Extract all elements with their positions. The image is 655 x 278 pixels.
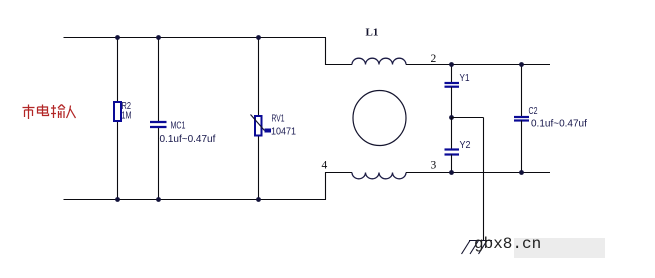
wire ground column [483,118,485,241]
svg-text:4: 4 [322,160,328,172]
svg-text:0.1uf~0.47uf: 0.1uf~0.47uf [160,134,216,145]
svg-text:3: 3 [431,160,437,172]
node dot top MC1 [156,35,161,40]
svg-text:MC1: MC1 [171,120,186,132]
capacitor Y2 [445,150,460,155]
node dot bottom R2 [115,197,120,202]
入 [67,106,76,119]
ground symbol [462,241,493,255]
node dot top R2 [115,35,120,40]
svg-text:0.1uf~0.47uf: 0.1uf~0.47uf [531,119,587,130]
node dot bottom RV1 [256,197,261,202]
wire L1 top winding to right end [406,64,550,66]
node dot C2 top [519,62,524,67]
varistor RV1 diagonal [251,115,265,131]
wire top line L phase [64,37,327,39]
svg-text:L1: L1 [366,27,379,39]
capacitor Y1 [445,83,460,87]
输 [51,105,65,119]
load circle [353,91,406,146]
svg-text:RV1: RV1 [272,113,285,125]
watermark gray box [514,238,605,258]
svg-text:1M: 1M [122,110,132,122]
capacitor C2 [514,117,529,121]
node dot bottom MC1 [156,197,161,202]
varistor RV1 [255,116,262,136]
svg-text:Y2: Y2 [460,139,471,151]
resistor R2 [114,102,121,121]
varistor RV1 diagonal foot [265,129,272,133]
电 [38,105,49,116]
svg-text:10471: 10471 [271,126,296,138]
node dot C2 bottom [519,170,524,175]
inductor L1 bottom winding [352,173,406,179]
wire C2 top segment [521,65,523,118]
label input text 市电输入 (hand drawn strokes) [23,105,76,120]
wire step up from bottom line to L1 bottom winding [326,173,353,200]
svg-text:Y1: Y1 [460,72,470,84]
svg-text:gbx8.cn: gbx8.cn [474,235,541,253]
node dot mid Y junction [449,115,454,120]
市 [23,105,35,120]
node dot node 3 junction [449,170,454,175]
node dot top RV1 [256,35,261,40]
wire MC1 column bottom [158,127,160,200]
wire C2 bottom segment [521,121,523,173]
svg-text:C2: C2 [529,105,538,117]
inductor L1 top winding [352,58,406,64]
svg-text:2: 2 [431,53,437,65]
wire R2 column [117,38,119,200]
wire L1 bottom winding to right end [406,172,550,174]
wire Y1 bottom to mid node [451,87,453,118]
wire Y1 top segment [451,65,453,84]
wire Y2 top segment [451,118,453,150]
wire mid node to ground column [452,117,484,119]
wire step down from top line to L1 [326,38,353,65]
capacitor MC1 [150,122,167,127]
wire RV1 column [258,38,260,200]
node dot node 2 junction [449,62,454,67]
wire Y2 bottom segment [451,155,453,173]
wire bottom line N phase [64,199,327,201]
wire MC1 column top [158,38,160,123]
